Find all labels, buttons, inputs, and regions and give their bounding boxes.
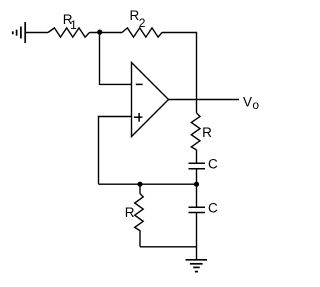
wire: R2 to output node (corner at top right)	[162, 33, 197, 114]
svg-text:C: C	[208, 201, 218, 216]
wire: R1 to R2 through node A	[90, 32, 123, 34]
capacitor C2	[189, 207, 206, 212]
op-amp U1	[132, 63, 169, 137]
svg-text:R: R	[202, 125, 212, 140]
svg-text:C: C	[208, 157, 218, 172]
wire: C2 to ground GND2	[196, 213, 198, 260]
ground GND1 (input reference, left-pointing)	[13, 22, 25, 43]
resistor R (feedback, vertical right)	[191, 113, 200, 150]
svg-text:V: V	[243, 95, 252, 110]
resistor R (grounding, vertical left) with leads	[135, 184, 144, 247]
label C2	[208, 201, 218, 216]
wire: node B to node C (horizontal)	[99, 183, 197, 185]
svg-text:R: R	[125, 205, 135, 220]
label R (grounding)	[125, 205, 135, 220]
capacitor C1	[189, 163, 206, 168]
label R2	[130, 8, 146, 30]
wire: GND1 to R1	[25, 32, 48, 34]
label R (feedback)	[202, 125, 212, 140]
wire: bottom of R to ground rail	[140, 246, 197, 248]
ground GND2 (bottom)	[186, 260, 208, 272]
node B junction dot	[194, 182, 199, 187]
label C1	[208, 157, 218, 172]
node C junction dot	[137, 182, 142, 187]
label R1	[63, 12, 77, 32]
wire: op-amp output to Vo	[169, 99, 240, 101]
resistor R1	[48, 28, 90, 37]
node A junction dot	[97, 29, 102, 34]
wire: C1 to C2 through node B	[196, 169, 198, 208]
resistor R2	[122, 28, 162, 37]
svg-text:2: 2	[139, 16, 146, 30]
wire: non-inverting input loop (left and down)	[99, 117, 132, 185]
wire: node A down to inverting input	[100, 33, 132, 85]
svg-text:1: 1	[70, 18, 77, 32]
label Vo	[243, 95, 259, 113]
wire: R to C1	[196, 150, 198, 163]
svg-text:o: o	[252, 98, 259, 112]
